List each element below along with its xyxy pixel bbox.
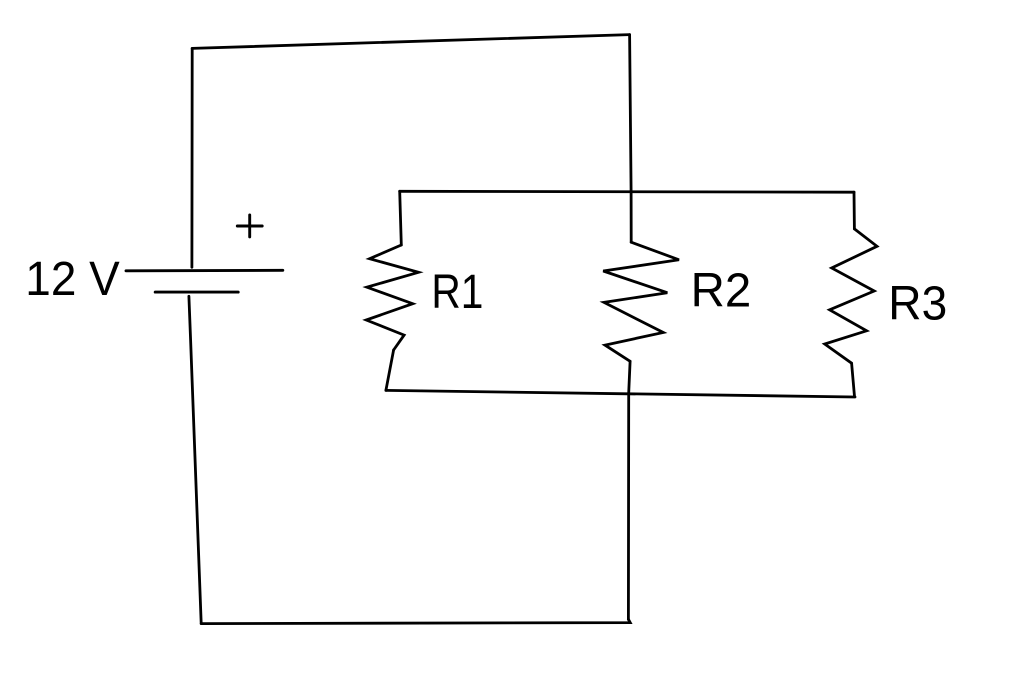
resistor R2 — [603, 242, 679, 361]
wire inner right side — [853, 192, 856, 229]
svg-text:R3: R3 — [888, 278, 947, 331]
wire left vertical lower — [189, 296, 201, 623]
svg-text:R1: R1 — [431, 266, 483, 319]
resistor R1 — [366, 245, 418, 350]
svg-text:12 V: 12 V — [25, 253, 119, 306]
wire right vertical lower — [628, 361, 630, 619]
battery plate negative — [155, 291, 238, 294]
wire left vertical upper — [190, 48, 193, 267]
battery plate positive — [126, 269, 283, 272]
battery polarity plus — [237, 215, 262, 237]
wire inner left side — [400, 191, 402, 245]
wire right vertical upper — [630, 35, 632, 243]
wire outer top — [192, 35, 629, 49]
wire inner top rail — [400, 190, 854, 194]
wire outer bottom — [201, 619, 630, 623]
resistor R3 — [825, 229, 877, 363]
wire R3 lower lead — [852, 363, 855, 396]
svg-text:R2: R2 — [691, 265, 752, 318]
wire inner bottom rail — [386, 390, 855, 397]
wire R1 lower lead — [386, 350, 394, 390]
